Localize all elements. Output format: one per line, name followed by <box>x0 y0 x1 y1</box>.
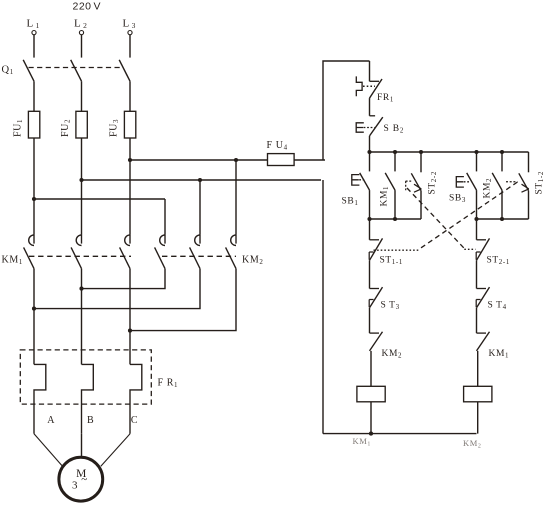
node L2 tap junction <box>79 178 83 182</box>
label KM1 (interlock) <box>489 349 510 360</box>
svg-text:L 2: L 2 <box>74 18 87 31</box>
node left bus at SB1 <box>367 217 371 221</box>
node top bus SB1 branch <box>367 150 371 154</box>
thermal relay FR1 heater element phase C <box>130 364 142 433</box>
wire to coil KM2 <box>477 351 479 386</box>
svg-text:ST1-1: ST1-1 <box>380 256 403 267</box>
label FU2 <box>60 119 72 137</box>
contactor main contact KM2 pole 2 <box>190 235 200 269</box>
switch Q1 linkage dashed <box>29 67 121 69</box>
wire coil KM1 to bottom rail <box>370 402 372 434</box>
wire left group bottom bus <box>370 218 422 220</box>
pushbutton SB2 stop (NC) <box>356 98 383 136</box>
svg-text:FU1: FU1 <box>13 119 25 137</box>
wire to coil KM1 <box>370 351 372 386</box>
wire KM2-2 output crossover to A <box>34 269 200 309</box>
terminal L1 <box>27 18 40 35</box>
limit switch ST2-1 (NC) <box>476 219 489 260</box>
node L3 tap junction <box>128 158 132 162</box>
contactor main contact KM2 pole 3 <box>226 235 236 269</box>
wire L2 lead-in <box>81 35 83 58</box>
wire control supply rail <box>323 61 370 160</box>
linkage ST2 dotted lead <box>464 248 475 250</box>
switch Q1 blade pole 3 <box>119 60 130 81</box>
label FR1 (contact) <box>377 93 394 104</box>
switch Q1 label <box>2 65 14 77</box>
node B column junction <box>79 287 83 291</box>
switch Q1 blade pole 2 <box>71 60 82 81</box>
contact KM2 auxiliary (NO) <box>492 152 502 219</box>
label ST3 <box>381 301 400 312</box>
label KM1 (coil, faint) <box>353 436 372 448</box>
thermal relay FR1 box dashed <box>20 350 151 404</box>
label ST2-2 <box>428 171 439 194</box>
terminal L3 <box>123 18 136 35</box>
svg-text:KM1: KM1 <box>353 436 372 448</box>
svg-text:C: C <box>131 415 138 426</box>
svg-text:Q1: Q1 <box>2 65 14 77</box>
wire phase C to motor <box>101 434 130 467</box>
svg-text:~: ~ <box>81 474 88 486</box>
wire control top bus <box>370 151 529 153</box>
node A column junction <box>32 307 36 311</box>
wire fuse feed 1 <box>33 81 35 111</box>
wire B column KM1-2 to FR1 <box>81 269 83 365</box>
coil KM1 <box>357 386 385 402</box>
svg-text:L 1: L 1 <box>27 18 40 31</box>
fuse FU3 <box>124 111 135 138</box>
fuse FU4 <box>268 154 295 166</box>
wire L1 lead-in <box>33 35 35 58</box>
label KM2 (coil, faint) <box>463 438 482 450</box>
limit switch ST1-2 actuator dashed <box>506 181 518 183</box>
wire FU4 to control rail <box>294 159 325 161</box>
limit switch ST2-2 (NO) <box>411 152 421 219</box>
wire A column KM1-1 to FR1 <box>33 269 35 365</box>
contact KM2 interlock (NC) <box>370 308 383 351</box>
svg-text:FR1: FR1 <box>377 93 394 104</box>
label KM2 (aux) <box>483 178 494 199</box>
node top bus SB3 branch <box>474 150 478 154</box>
label ST4 <box>488 301 507 312</box>
wire right group bottom bus <box>477 218 529 220</box>
svg-text:F U4: F U4 <box>267 140 288 152</box>
node bottom rail junction <box>369 432 373 436</box>
label KM1 (main contacts) <box>2 255 23 267</box>
wire C column KM1-3 to FR1 <box>129 269 131 365</box>
node right bus at KM2 aux <box>500 217 504 221</box>
label KM2 (interlock) <box>382 349 403 360</box>
wire L3 lead-in <box>129 35 131 58</box>
svg-text:A: A <box>47 415 55 426</box>
thermal relay FR1 heater element phase A <box>34 364 46 433</box>
svg-text:L 3: L 3 <box>123 18 136 31</box>
switch Q1 blade pole 1 <box>23 60 34 81</box>
svg-text:ST2-1: ST2-1 <box>487 256 510 267</box>
node top bus ST2-2 branch <box>419 150 423 154</box>
svg-text:V: V <box>94 1 102 13</box>
pushbutton SB1 start (NO) <box>352 152 370 219</box>
wire fuse feed 3 <box>129 81 131 111</box>
wire L2 column to KM1 <box>81 138 83 235</box>
wire KM2-1 upper lead <box>164 199 166 235</box>
label SB3 <box>449 194 466 205</box>
svg-text:KM1: KM1 <box>380 186 391 207</box>
svg-text:3: 3 <box>72 480 78 492</box>
label ST1-2 <box>535 171 544 194</box>
wire L3 branch to FU4 <box>130 159 268 161</box>
svg-text:FU3: FU3 <box>109 119 121 137</box>
label FR1 (heater box) <box>158 378 179 390</box>
linkage ST1 dashed cross <box>420 182 517 248</box>
limit switch ST1-2 (NO) <box>519 152 529 219</box>
svg-text:KM2: KM2 <box>463 438 482 450</box>
wire KM2-2 upper lead <box>199 180 201 235</box>
svg-text:220: 220 <box>72 1 91 13</box>
wire L1 column to KM1 <box>33 138 35 235</box>
wire control bottom rail <box>323 433 477 435</box>
contactor main contact KM1 pole 3 <box>120 235 130 269</box>
svg-text:F R1: F R1 <box>158 378 179 390</box>
node L1 tap junction <box>32 197 36 201</box>
wire SB2 to bus <box>369 136 371 152</box>
linkage ST2 dashed cross <box>407 188 464 248</box>
fuse FU1 <box>28 111 39 138</box>
wire control return rail <box>322 180 324 434</box>
node top bus KM2 aux branch <box>500 150 504 154</box>
label ST2-1 <box>487 256 510 267</box>
svg-text:SB1: SB1 <box>342 197 359 208</box>
label FU1 <box>13 119 25 137</box>
limit switch ST2-2 actuator dashed <box>406 181 412 190</box>
contact KM1 interlock (NC) <box>477 308 490 351</box>
node KM2-2 tap junction <box>198 178 202 182</box>
node right bus at SB3 <box>474 217 478 221</box>
svg-text:FU2: FU2 <box>60 119 72 137</box>
label ST1-1 <box>380 256 403 267</box>
svg-text:KM2: KM2 <box>483 178 494 199</box>
wire L1 branch to KM2-1 <box>34 198 165 200</box>
wire coil KM2 to bottom rail <box>477 402 479 434</box>
label KM1 (aux) <box>380 186 391 207</box>
svg-text:S T3: S T3 <box>381 301 400 312</box>
wire fuse feed 2 <box>81 81 83 111</box>
svg-text:ST2-2: ST2-2 <box>428 171 439 194</box>
thermal contact FR1 (NC) <box>356 61 382 98</box>
wire phase A to motor <box>34 434 63 466</box>
coil KM2 <box>464 386 492 402</box>
svg-text:SB3: SB3 <box>449 194 466 205</box>
wire L3 column to KM1 <box>129 138 131 235</box>
limit switch ST3 (NC) <box>369 260 382 308</box>
wire L2 branch to control return <box>82 179 322 181</box>
contactor main contact KM2 pole 1 <box>155 235 165 269</box>
wire KM2-3 upper lead <box>235 160 237 235</box>
label phase A <box>47 415 55 426</box>
fuse FU2 <box>76 111 87 138</box>
label SB2 <box>384 124 405 135</box>
contactor KM2 linkage dashed <box>162 255 236 257</box>
svg-text:KM2: KM2 <box>382 349 403 360</box>
terminal L2 <box>74 18 87 35</box>
label SB1 <box>342 197 359 208</box>
node left bus at KM1 aux <box>393 217 397 221</box>
contact KM1 auxiliary (NO) <box>385 152 395 219</box>
pushbutton SB3 start (NO) <box>456 152 476 219</box>
svg-text:KM1: KM1 <box>489 349 510 360</box>
contactor KM1 linkage dashed <box>29 255 131 257</box>
svg-text:B: B <box>87 415 94 426</box>
label FU3 <box>109 119 121 137</box>
label phase C <box>131 415 138 426</box>
wire phase B to motor <box>81 434 83 457</box>
wire KM2-1 output crossover to B <box>82 269 166 289</box>
label 220V supply <box>72 1 101 13</box>
thermal relay FR1 heater element phase B <box>82 364 94 433</box>
limit switch ST1-1 (NC) <box>369 219 382 260</box>
svg-text:S T4: S T4 <box>488 301 507 312</box>
motor M 3-phase <box>59 457 103 501</box>
label KM2 (main contacts) <box>242 255 263 267</box>
svg-text:KM1: KM1 <box>2 255 23 267</box>
node top bus KM1 aux branch <box>393 150 397 154</box>
label FU4 <box>267 140 288 152</box>
wire KM2-3 output crossover to C <box>130 269 236 331</box>
linkage ST1 dotted lead <box>374 249 421 251</box>
svg-text:KM2: KM2 <box>242 255 263 267</box>
node KM2-3 tap junction <box>234 158 238 162</box>
label phase B <box>87 415 94 426</box>
node C column junction <box>128 329 132 333</box>
contactor main contact KM1 pole 2 <box>71 235 81 269</box>
contactor main contact KM1 pole 1 <box>24 235 34 269</box>
svg-text:S B2: S B2 <box>384 124 405 135</box>
limit switch ST4 (NC) <box>476 260 489 308</box>
svg-text:ST1-2: ST1-2 <box>535 171 544 194</box>
